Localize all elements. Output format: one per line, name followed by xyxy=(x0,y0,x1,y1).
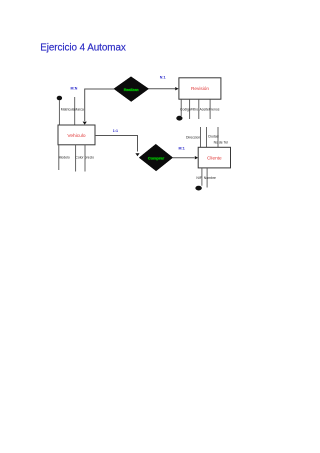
wire Vehiculo right to diamond2 xyxy=(95,136,138,152)
arrowhead into Cliente left xyxy=(195,156,198,159)
svg-text:Direccion: Direccion xyxy=(186,136,200,140)
attribute line NIF xyxy=(201,168,203,186)
attribute line Nombre xyxy=(206,168,208,188)
attribute line Direccion xyxy=(200,127,202,147)
svg-text:Realizan: Realizan xyxy=(124,88,140,92)
svg-text:Comprar: Comprar xyxy=(148,155,165,160)
relationship diamond Comprar xyxy=(139,144,173,171)
svg-text:precio: precio xyxy=(85,156,94,160)
attribute line Frenos xyxy=(209,99,211,119)
wire diamond2-right to Cliente xyxy=(173,157,195,159)
entity Revision xyxy=(179,78,221,99)
svg-text:Color: Color xyxy=(75,156,84,160)
svg-text:1:1: 1:1 xyxy=(113,129,118,133)
wire diamond1-right to Revision xyxy=(148,88,175,90)
attribute line Marca xyxy=(74,97,76,125)
attribute line Ciudad xyxy=(206,127,208,147)
key ellipse NIF xyxy=(195,186,201,191)
svg-text:Filtro: Filtro xyxy=(191,108,199,112)
svg-text:NIF: NIF xyxy=(196,176,201,180)
key ellipse CodigoRev xyxy=(176,116,182,121)
svg-text:M:1: M:1 xyxy=(179,147,185,151)
svg-text:Ejercicio 4 Automax: Ejercicio 4 Automax xyxy=(40,43,126,54)
key ellipse Matricula xyxy=(57,96,62,101)
svg-text:Matricula: Matricula xyxy=(61,108,75,112)
svg-text:Revisión: Revisión xyxy=(191,86,209,91)
attribute line Aceite xyxy=(198,99,200,119)
arrowhead into diamond2 xyxy=(135,153,139,156)
svg-text:Modelo: Modelo xyxy=(59,156,70,160)
attribute line precio xyxy=(84,145,86,172)
svg-text:Nombre: Nombre xyxy=(204,176,216,180)
relationship diamond Realizan xyxy=(114,77,149,102)
svg-text:Frenos: Frenos xyxy=(209,108,220,112)
svg-text:Vehiculo: Vehiculo xyxy=(67,133,85,139)
wire diamond1-left to Vehiculo top xyxy=(85,89,115,121)
arrowhead into Revision left xyxy=(175,87,178,90)
attribute line Filtro xyxy=(189,99,191,119)
svg-text:Ciudad: Ciudad xyxy=(208,134,219,138)
svg-text:M:N: M:N xyxy=(71,87,78,91)
svg-text:Aceite: Aceite xyxy=(200,108,210,112)
svg-text:Codigo: Codigo xyxy=(180,108,191,112)
arrowhead into Vehiculo top xyxy=(83,122,87,125)
svg-text:No de Tel: No de Tel xyxy=(214,140,229,144)
entity Vehiculo xyxy=(58,125,95,145)
attribute line Matricula xyxy=(58,100,60,125)
svg-text:Cliente: Cliente xyxy=(207,156,222,161)
entity Cliente xyxy=(198,147,230,168)
svg-text:Marca: Marca xyxy=(74,108,84,112)
attribute line NodeTel xyxy=(217,127,219,147)
svg-text:N:1: N:1 xyxy=(160,76,166,80)
attribute line CodigoRev xyxy=(180,99,182,116)
attribute line Modelo xyxy=(58,145,60,170)
attribute line Color xyxy=(75,145,77,172)
